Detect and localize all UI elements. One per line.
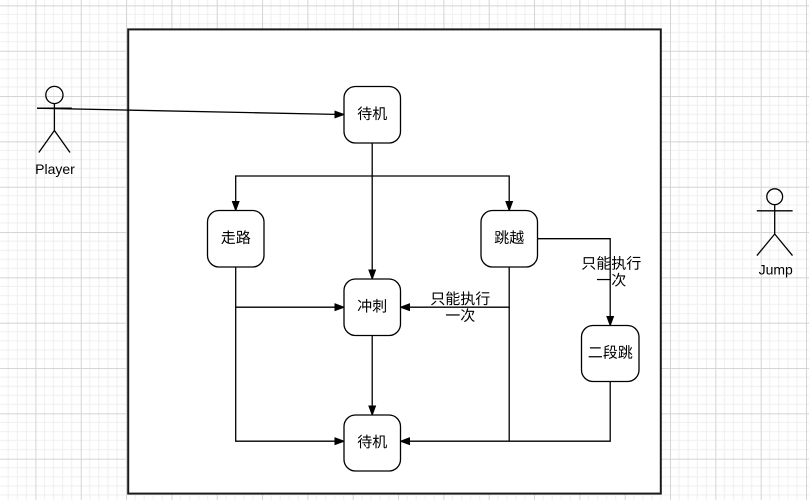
label 只能执行一次 near 冲刺 [431,291,490,322]
container rectangle [128,29,661,493]
wire top 待机 branch to 跳越 with arrow [372,176,512,211]
svg-text:Jump: Jump [759,262,793,278]
wire Player to top 待机 with arrow [37,108,344,118]
wire 二段跳 to bottom 待机 with arrow [401,382,611,445]
wire 走路 to bottom 待机 with arrow [236,307,344,444]
wire top 待机 down to 冲刺 with arrow [369,143,376,279]
wire 冲刺 to bottom 待机 with arrow [369,336,376,416]
wire top 待机 branch to 走路 with arrow [232,176,372,211]
actor Jump [757,189,793,256]
state box 二段跳 [582,326,640,382]
wire 跳越 to 冲刺 with arrow [401,267,510,311]
svg-text:Player: Player [35,161,75,177]
wire 跳越 down joining bottom line to 待机 [508,307,510,441]
wire 跳越 to 二段跳 with arrow [538,239,614,326]
label 只能执行一次 near 二段跳 [582,256,641,287]
state box 冲刺 [344,279,401,336]
state box 待机 bottom [344,415,401,471]
wire 走路 to 冲刺 with arrow [236,267,344,311]
state box 走路 [208,211,265,268]
state box 待机 top [344,87,401,144]
actor Player [37,86,72,152]
state box 跳越 [481,211,538,268]
